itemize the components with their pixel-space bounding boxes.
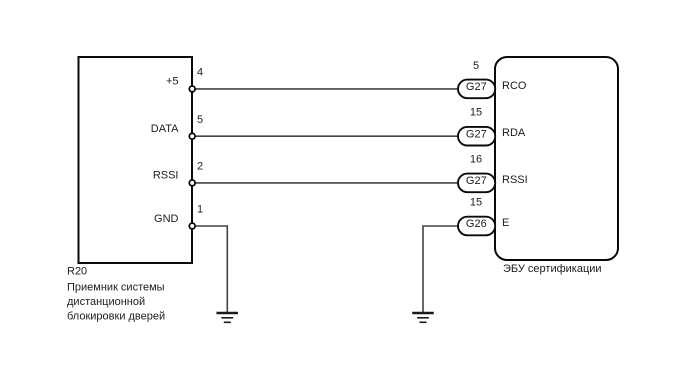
svg-text:G26: G26: [466, 218, 487, 230]
svg-text:ЭБУ сертификации: ЭБУ сертификации: [503, 263, 602, 275]
svg-text:15: 15: [470, 197, 482, 209]
svg-text:4: 4: [197, 67, 203, 79]
svg-text:G27: G27: [466, 175, 487, 187]
svg-text:дистанционной: дистанционной: [67, 296, 145, 308]
svg-text:RSSI: RSSI: [502, 174, 528, 186]
wire DATA to G27 pin 15: [192, 135, 459, 137]
connector oval G27 pin 5: [458, 80, 495, 99]
ECU box: [495, 57, 618, 260]
svg-text:R20: R20: [67, 266, 87, 278]
wire RSSI to G27 pin 16: [192, 182, 459, 184]
svg-text:RSSI: RSSI: [153, 170, 179, 182]
pin circle 5 (DATA): [189, 133, 195, 139]
ground symbol right: [412, 313, 434, 322]
svg-text:2: 2: [197, 161, 203, 173]
svg-text:RCO: RCO: [502, 80, 527, 92]
svg-text:G27: G27: [466, 81, 487, 93]
svg-text:Приемник системы: Приемник системы: [67, 282, 165, 294]
connector oval G27 pin 16: [458, 174, 495, 193]
svg-text:5: 5: [473, 60, 479, 72]
pin circle 2 (RSSI): [189, 180, 195, 186]
svg-text:G27: G27: [466, 128, 487, 140]
svg-text:E: E: [502, 217, 509, 229]
wire +5 to G27 pin 5: [192, 88, 459, 90]
svg-text:+5: +5: [166, 76, 179, 88]
svg-text:DATA: DATA: [151, 123, 179, 135]
wire G26 pin 15 E to ground: [423, 226, 459, 312]
svg-text:GND: GND: [154, 213, 179, 225]
svg-text:1: 1: [197, 204, 203, 216]
wire GND to ground: [192, 226, 227, 312]
svg-text:5: 5: [197, 114, 203, 126]
pin circle 4 (+5): [189, 86, 195, 92]
ground symbol left: [217, 313, 239, 322]
svg-text:15: 15: [470, 106, 482, 118]
connector oval G27 pin 15: [458, 127, 495, 146]
receiver box R20: [79, 57, 193, 263]
connector oval G26 pin 15: [458, 217, 495, 236]
svg-text:16: 16: [470, 153, 482, 165]
svg-text:RDA: RDA: [502, 127, 526, 139]
svg-text:блокировки дверей: блокировки дверей: [67, 310, 165, 322]
pin circle 1 (GND): [189, 223, 195, 229]
